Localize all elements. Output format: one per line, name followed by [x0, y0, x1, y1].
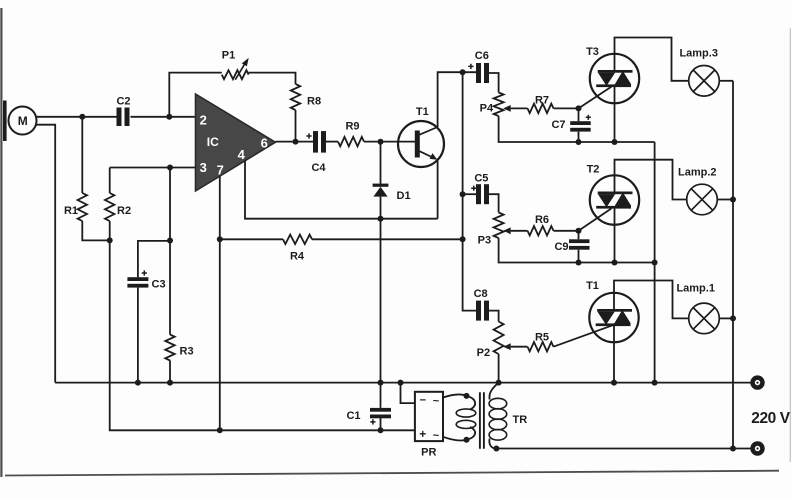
wire: feedback branch up to P1 [169, 73, 222, 117]
wire: R1 top [81, 117, 83, 193]
transformer TR low-voltage winding [456, 396, 476, 440]
junction node pin4/D1 [378, 216, 384, 222]
svg-text:T3: T3 [586, 46, 599, 58]
wire: C3 top jog [138, 241, 170, 277]
wire: C8 to P2 top [489, 311, 499, 322]
wire: R6 to gate node [554, 230, 579, 232]
wire: R2 top from pin3 line [109, 168, 111, 194]
wire: Lamp.2 to right lamp bus [717, 199, 733, 201]
svg-text:PR: PR [421, 446, 436, 458]
junction node collector/C6 [460, 69, 466, 75]
svg-text:C7: C7 [551, 119, 565, 131]
junction dot T1/bottom rail [611, 380, 617, 386]
wire: Lamp.1 to right lamp bus [719, 317, 733, 319]
svg-text:R8: R8 [307, 96, 321, 108]
wire: PR to primary coil bottom [443, 437, 467, 441]
junction node output/R8 [293, 139, 299, 145]
svg-text:P1: P1 [222, 50, 235, 62]
wire: P1 to R8 top [249, 73, 296, 84]
wire: P4 bottom to row1 rail [499, 116, 655, 142]
junction dot C9/row2 rail [576, 260, 582, 266]
svg-text:R3: R3 [180, 346, 194, 358]
wire: T3 MT2 up and over to Lamp.3 [615, 38, 689, 81]
wire: gate diagonal T3 [579, 87, 612, 109]
svg-text:R5: R5 [535, 332, 549, 344]
svg-text:P3: P3 [478, 235, 491, 247]
capacitor C7 [551, 108, 590, 142]
junction dot PR coil top [464, 393, 470, 399]
wire: mic ground down to bottom rail [36, 125, 55, 383]
wire: right lamp bus [732, 81, 734, 449]
wire: R7 to gate node [554, 107, 579, 109]
svg-text:R7: R7 [535, 95, 549, 107]
wiper arrow P2 [503, 343, 527, 350]
wire: D1 cathode up to base node [380, 142, 382, 184]
junction node mic/R1 [79, 114, 85, 120]
junction node base/D1 [378, 139, 384, 145]
resistor R9 [338, 121, 364, 147]
svg-text:Lamp.2: Lamp.2 [678, 167, 717, 179]
wire: T1 MT2 up and over to Lamp.1 [614, 281, 689, 319]
transformer TR mains winding [489, 383, 527, 449]
capacitor C1 [346, 408, 391, 425]
junction node R1/R2 [107, 237, 113, 243]
triac T2 [587, 164, 640, 225]
svg-text:M: M [18, 114, 28, 128]
junction dot R3/bottom rail [167, 380, 173, 386]
junction node gate2/C9 [576, 228, 582, 234]
svg-text:7: 7 [217, 163, 224, 178]
junction dot lamp bus/bottom line [730, 446, 736, 452]
wire: T2 MT1 down to row2 rail [614, 208, 616, 263]
terminal 220V bottom [750, 441, 764, 455]
capacitor C5 [471, 173, 489, 205]
svg-text:R2: R2 [117, 205, 131, 217]
svg-text:P2: P2 [477, 347, 490, 359]
potentiometer P1 [222, 50, 249, 80]
capacitor C4 [306, 131, 326, 174]
wire: mic output to C2 and IC pin 2 [37, 116, 196, 118]
resistor R6 [528, 214, 554, 236]
svg-text:D1: D1 [397, 190, 411, 202]
wire: R4 rail left part [220, 238, 283, 240]
wire: P3 bottom to row2 rail [499, 238, 655, 263]
svg-text:Lamp.3: Lamp.3 [679, 47, 718, 59]
wire: P2 bottom to bottom rail [498, 354, 500, 383]
junction dot C3/bottom rail [135, 380, 141, 386]
capacitor C9 [554, 231, 589, 263]
wire: T2 MT2 up and over to Lamp.2 [615, 160, 687, 200]
resistor R8 [291, 84, 321, 110]
resistor R1 [64, 193, 87, 221]
svg-text:IC: IC [207, 135, 219, 149]
svg-text:T1: T1 [586, 280, 599, 292]
wire: Lamp.3 to right lamp bus [719, 80, 733, 82]
wire: pin3 junction down to C3/R3 node [169, 168, 171, 241]
svg-text:~: ~ [433, 395, 440, 407]
wire: IC pin 7 down across to lower rail [219, 176, 221, 430]
junction dot Lamp.2/lamp bus [730, 197, 736, 203]
capacitor C3 [127, 270, 165, 290]
wire: D1 anode down through pin4 rail and bottom rail to C1 [380, 197, 382, 408]
wire: R3 top [169, 241, 171, 335]
resistor R4 [283, 235, 312, 263]
potentiometer P4 [480, 93, 504, 117]
wire: gate diagonal T1 [554, 325, 613, 346]
wire: PR to primary coil top [443, 394, 467, 397]
wire: mains bottom line to terminal [496, 448, 750, 450]
bridge rectifier PR [415, 392, 443, 459]
wire: emitter down to pin4 rail [437, 160, 439, 219]
svg-text:C3: C3 [152, 279, 166, 291]
svg-text:C5: C5 [474, 173, 488, 185]
junction dot Lamp.1/lamp bus [730, 315, 736, 321]
wire: triac rails vertical line [654, 142, 656, 383]
svg-text:Lamp.1: Lamp.1 [676, 283, 715, 295]
svg-text:P4: P4 [480, 102, 494, 114]
junction node pin7/R4 [217, 236, 223, 242]
wire: R3 bottom to bottom rail [169, 361, 171, 383]
svg-text:C9: C9 [554, 241, 568, 253]
lamp Lamp.3 [679, 47, 719, 96]
wire: T3 MT1 down to row1 rail [614, 86, 616, 142]
resistor R7 [528, 95, 554, 114]
label 220 V [751, 410, 791, 427]
diode D1 [373, 184, 411, 202]
potentiometer P2 [477, 322, 504, 360]
junction node C3/R3 [167, 238, 173, 244]
svg-text:T2: T2 [587, 164, 600, 176]
svg-text:3: 3 [200, 160, 207, 175]
wire: C1 bottom to lower rail [380, 418, 382, 430]
junction dot P2-TR/bottom rail [496, 380, 502, 386]
wire: PR jog from bottom rail [401, 383, 415, 404]
junction dot C1/lower rail [378, 427, 384, 433]
wire: R1 bottom jog to R2 [82, 221, 109, 240]
junction dot PR coil bottom [464, 437, 470, 443]
wire: R9 to base node [364, 141, 415, 143]
capacitor C6 [468, 50, 489, 83]
capacitor C8 [474, 288, 489, 321]
junction dot TR bottom [493, 446, 499, 452]
wire: C3 bottom to bottom rail [137, 288, 139, 383]
svg-text:−: − [420, 394, 426, 406]
svg-text:C1: C1 [346, 410, 360, 422]
wire: T1 MT1 down to bottom rail [613, 325, 615, 383]
svg-text:2: 2 [200, 113, 207, 128]
microphone M [3, 101, 37, 142]
resistor R3 [165, 335, 193, 361]
junction dot T3/row1 rail [612, 139, 618, 145]
lamp Lamp.1 [676, 283, 719, 334]
junction node C2/P1 [166, 114, 172, 120]
svg-text:T1: T1 [416, 106, 429, 118]
svg-text:4: 4 [238, 147, 246, 162]
svg-text:6: 6 [261, 136, 268, 151]
junction node supply/C5 [460, 191, 466, 197]
wire: bottom rail (mains top) [55, 382, 750, 384]
junction dot rails line/bottom rail [652, 380, 658, 386]
junction dot PR/bottom rail [398, 380, 404, 386]
wiper arrow P3 [503, 227, 527, 234]
junction dot D1-C1/bottom rail [378, 380, 384, 386]
svg-text:C8: C8 [474, 288, 488, 300]
svg-text:R9: R9 [345, 121, 359, 133]
wire: C5 stub [463, 193, 476, 195]
capacitor C2 [116, 96, 130, 127]
svg-text:220 V: 220 V [751, 410, 791, 427]
potentiometer P3 [478, 213, 504, 247]
junction dot rails line/row2 [652, 260, 658, 266]
transformer TR core [480, 392, 484, 448]
wire: C4 to R9 [326, 141, 338, 143]
wire: IC pin 3 input [110, 167, 196, 169]
wire: R4 to supply line [312, 238, 463, 240]
junction node pin3/R3 [167, 165, 173, 171]
wire: R8 bottom to output node [295, 110, 297, 142]
wire: C6 to P4 top [489, 73, 499, 93]
triac T3 [586, 46, 639, 103]
junction dot C7/row1 rail [576, 139, 582, 145]
junction node R4/supply [460, 236, 466, 242]
wire: collector up to supply node [438, 72, 476, 127]
junction node gate3/C7 [576, 105, 582, 111]
wire: gate diagonal T2 [579, 208, 612, 230]
wire: IC pin 4 rail [245, 161, 438, 219]
resistor R5 [528, 332, 554, 352]
lamp Lamp.2 [678, 167, 717, 215]
terminal 220V top [750, 375, 764, 389]
svg-text:+: + [419, 427, 426, 441]
op-amp IC [196, 94, 276, 191]
svg-text:C2: C2 [116, 96, 130, 108]
svg-text:TR: TR [513, 414, 528, 426]
svg-text:C6: C6 [475, 50, 489, 62]
junction dot T2/row2 rail [612, 260, 618, 266]
svg-text:R6: R6 [535, 214, 549, 226]
wire: R2 bottom down to lower rail [110, 221, 415, 430]
triac T1 [586, 280, 639, 342]
wire: IC output pin 6 [275, 141, 313, 143]
wire: supply vertical line [463, 72, 476, 310]
svg-text:C4: C4 [311, 162, 326, 174]
svg-text:R1: R1 [64, 205, 78, 217]
transistor T1 [398, 106, 444, 167]
junction dot pin7/lower rail [217, 427, 223, 433]
resistor R2 [105, 193, 131, 221]
svg-text:~: ~ [433, 430, 440, 442]
wiper arrow P4 [503, 105, 527, 112]
svg-text:R4: R4 [290, 251, 305, 263]
wire: C5 to P3 top [489, 194, 499, 212]
